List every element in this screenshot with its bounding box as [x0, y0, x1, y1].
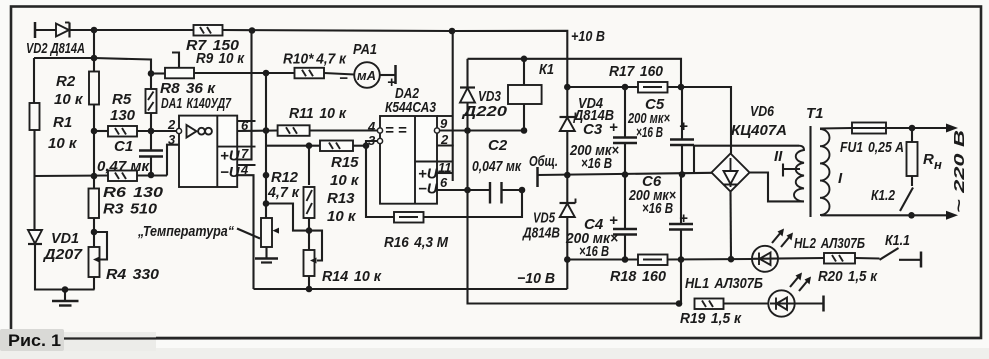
zener diode VD2	[56, 23, 70, 38]
junction node (681,259.5)	[678, 256, 685, 263]
svg-text:10 к: 10 к	[48, 135, 78, 152]
svg-text:R15: R15	[331, 154, 359, 171]
svg-text:Общ.: Общ.	[529, 153, 558, 170]
wire R9 to output node	[194, 72, 295, 74]
svg-text:R5: R5	[112, 91, 132, 108]
Rn load	[911, 128, 913, 142]
zener VD4	[566, 87, 568, 131]
svg-text:R1: R1	[53, 114, 72, 131]
op-amp DA1	[179, 116, 256, 187]
svg-text:R10* 4,7 к: R10* 4,7 к	[283, 51, 347, 68]
potentiometer R9	[165, 68, 194, 79]
svg-text:10 к: 10 к	[327, 208, 357, 225]
svg-text:6: 6	[440, 175, 448, 190]
svg-text:HL2 АЛ307Б: HL2 АЛ307Б	[794, 235, 865, 252]
wire: left vertical column	[33, 58, 35, 103]
junction node (522,190)	[519, 187, 526, 194]
wire: top +10V rail to R7	[94, 29, 194, 31]
junction node (731,259.2)	[728, 256, 735, 263]
svg-text:КЦ407А: КЦ407А	[731, 122, 787, 139]
junction node (467.5,190)	[464, 187, 471, 194]
junction node (266,73)	[263, 70, 270, 77]
junction node (681,87)	[678, 84, 685, 91]
svg-text:R6 130: R6 130	[103, 184, 164, 201]
resistor R4 with wiper loop	[89, 247, 100, 277]
R14 vertical	[304, 250, 315, 276]
junction node (524,130.5)	[521, 127, 528, 134]
svg-text:R14 10 к: R14 10 к	[322, 268, 382, 285]
relay K1 + VD3 flyback	[466, 88, 468, 131]
resistor R7	[194, 25, 223, 36]
node R8 top / R9	[94, 58, 151, 74]
svg-text:VD2 Д814А: VD2 Д814А	[26, 40, 85, 57]
svg-text:+10 В: +10 В	[571, 28, 605, 45]
junction node (568,259.5)	[564, 256, 571, 263]
capacitor C1	[139, 131, 163, 175]
resistor R5	[108, 126, 137, 137]
svg-text:×16 В: ×16 В	[636, 124, 663, 141]
junction node (625,259.5)	[622, 256, 629, 263]
svg-text:II: II	[774, 148, 783, 165]
R17 row	[567, 86, 638, 88]
svg-text:н: н	[934, 157, 942, 172]
output node vertical	[265, 73, 267, 218]
winding II tap terminal	[782, 164, 784, 177]
junction node (679,303.5)	[676, 300, 683, 307]
pin9 output row	[440, 129, 525, 131]
svg-text:мА: мА	[357, 68, 376, 83]
C6 drop to rail B	[680, 260, 682, 304]
winding II	[794, 146, 804, 202]
svg-text:FU1 0,25 А: FU1 0,25 А	[840, 139, 904, 156]
svg-text:+: +	[679, 210, 688, 227]
svg-text:4: 4	[367, 119, 376, 134]
K1.1 switch	[855, 257, 880, 260]
svg-text:2: 2	[167, 117, 176, 132]
junction node (94,232)	[91, 229, 98, 236]
svg-text:Рис. 1: Рис. 1	[8, 331, 61, 350]
junction node (625,87)	[622, 84, 629, 91]
HL2 row	[752, 246, 778, 272]
wire rail slant to +10V corner	[452, 31, 567, 87]
svg-text:10 к: 10 к	[330, 172, 360, 189]
pin6 -U row	[437, 189, 490, 191]
R20	[824, 253, 855, 264]
svg-text:−: −	[339, 70, 348, 87]
meter PA1	[354, 62, 380, 88]
R11 row	[278, 125, 310, 136]
svg-text:R13: R13	[327, 190, 355, 207]
junction node (569,175)	[564, 172, 571, 179]
HL1 row (rail B)	[695, 299, 724, 310]
svg-text:+: +	[609, 119, 618, 136]
capacitor C5	[670, 87, 694, 174]
R16 feedback	[366, 146, 394, 217]
capacitor C6	[669, 174, 693, 259]
R18 row	[567, 258, 638, 260]
junction node (309,230.6)	[306, 227, 313, 234]
svg-text:R9 10 к: R9 10 к	[196, 50, 245, 67]
capacitor C3	[613, 87, 637, 175]
svg-text:−10 В: −10 В	[517, 270, 555, 287]
wire VD1 to ground rail	[35, 244, 95, 290]
svg-text:„Температура“: „Температура“	[137, 223, 234, 240]
svg-text:R11 10 к: R11 10 к	[289, 105, 347, 122]
svg-text:+: +	[679, 118, 688, 135]
junction node (912,128)	[909, 125, 916, 132]
svg-text:9: 9	[440, 116, 448, 131]
resistor R3	[89, 189, 100, 219]
svg-text:+: +	[609, 212, 618, 229]
resistor R6	[108, 171, 137, 182]
svg-text:К1: К1	[539, 61, 554, 78]
svg-text:К1.2: К1.2	[871, 187, 896, 204]
svg-text:R3 510: R3 510	[103, 201, 158, 218]
pin6 output wire	[237, 129, 277, 132]
svg-text:Д207: Д207	[42, 246, 83, 263]
junction node (94,176)	[91, 173, 98, 180]
svg-text:0,047 мк: 0,047 мк	[472, 158, 522, 175]
R13 vertical	[308, 146, 310, 185]
junction node (682,174.4)	[679, 171, 686, 178]
junction node (309,145.7)	[306, 142, 313, 149]
junction node (625,174.6)	[622, 171, 629, 178]
bottom 220V wire	[821, 214, 952, 216]
junction node (309,287.5)	[306, 286, 313, 293]
pin4 -U drop	[237, 175, 253, 289]
svg-text:3: 3	[168, 132, 176, 147]
junction node (524,58.8)	[521, 56, 528, 63]
bridge minus drop	[729, 192, 732, 260]
svg-text:R17 160: R17 160	[609, 63, 664, 80]
AC right	[750, 173, 805, 202]
junction node (266,175.2)	[263, 172, 270, 179]
svg-text:К1.1: К1.1	[885, 232, 910, 249]
svg-text:−U: −U	[418, 181, 439, 198]
pin7 +U riser	[237, 31, 251, 160]
wire: R5 / pin2 row	[94, 130, 108, 132]
svg-text:VD6: VD6	[750, 103, 775, 120]
junction node (65,289.5)	[62, 286, 69, 293]
svg-text:PA1: PA1	[353, 41, 377, 58]
svg-text:~ 220 В: ~ 220 В	[951, 130, 968, 213]
junction node (366,145.7)	[363, 142, 370, 149]
wire: R6 row	[35, 174, 109, 177]
svg-text:R20 1,5 к: R20 1,5 к	[818, 268, 878, 285]
junction node (569,87)	[564, 84, 571, 91]
FU1 fuse	[820, 127, 852, 130]
pin11 stub / +U riser	[437, 172, 453, 174]
junction node (94,131)	[91, 128, 98, 135]
svg-text:R16 4,3 М: R16 4,3 М	[384, 234, 448, 251]
junction node (151,73.5)	[148, 70, 155, 77]
resistor R8 vertical	[146, 89, 157, 113]
resistor R1	[30, 103, 40, 130]
wire to arrow	[886, 127, 952, 129]
svg-text:С3: С3	[583, 121, 603, 138]
wire: R2 column	[93, 30, 95, 72]
x467 vertical to rail B	[468, 131, 680, 304]
wire rail R7 to DA2 riser	[223, 30, 453, 31]
svg-text:Д220: Д220	[461, 103, 508, 120]
wire: pin3 riser of DA1	[167, 145, 179, 176]
AC loop left	[694, 146, 799, 173]
Ris.1 caption	[0, 329, 64, 351]
junction node (467.5,130.5)	[464, 127, 471, 134]
svg-text:HL1 АЛ307Б: HL1 АЛ307Б	[685, 275, 763, 292]
diode VD1	[28, 230, 42, 244]
svg-text:×16 В: ×16 В	[642, 200, 673, 217]
node at VD2/R2 top	[91, 27, 98, 34]
svg-text:3: 3	[368, 133, 376, 148]
R12 ground	[255, 247, 278, 263]
R10/PA1 branch	[295, 68, 325, 79]
pin2 stub	[437, 144, 454, 146]
junction node (452,31)	[449, 28, 456, 35]
svg-text:Д814В: Д814В	[521, 225, 560, 242]
capacitor C4	[613, 175, 637, 260]
junction node (913,213)	[908, 212, 915, 219]
svg-text:−U: −U	[220, 164, 241, 181]
svg-text:= =: = =	[385, 122, 407, 139]
svg-text:R4 330: R4 330	[106, 266, 160, 283]
svg-text:VD1: VD1	[51, 230, 79, 247]
svg-text:R2: R2	[56, 73, 76, 90]
zener VD5	[566, 175, 568, 217]
svg-text:4,7 к: 4,7 к	[267, 184, 300, 201]
-10V rail A	[254, 288, 568, 290]
svg-text:R19 1,5 к: R19 1,5 к	[680, 310, 742, 327]
ground symbol	[52, 290, 79, 306]
svg-text:×16 В: ×16 В	[579, 243, 609, 260]
svg-text:С1: С1	[114, 138, 133, 155]
svg-text:130: 130	[110, 107, 136, 124]
svg-text:10 к: 10 к	[54, 91, 84, 108]
junction node (151,131)	[148, 128, 155, 135]
resistor R2	[89, 72, 99, 105]
svg-text:+U: +U	[220, 148, 241, 165]
R15 row	[266, 145, 320, 147]
terminal bar VD2 input	[34, 22, 37, 38]
junction node (94,58)	[91, 55, 98, 62]
junction node (266,130.5)	[263, 127, 270, 134]
svg-text:DA1 К140УД7: DA1 К140УД7	[161, 95, 231, 112]
svg-text:Т1: Т1	[806, 105, 824, 122]
svg-text:R: R	[923, 151, 934, 168]
svg-text:R18 160: R18 160	[610, 268, 667, 285]
wire: second row left	[34, 57, 94, 59]
svg-text:С2: С2	[488, 137, 508, 154]
junction node (151,175)	[148, 172, 155, 179]
wire: VD2 input row	[35, 29, 69, 31]
svg-text:×16 В: ×16 В	[581, 155, 612, 172]
svg-text:К544СА3: К544СА3	[385, 99, 437, 116]
winding I	[820, 129, 830, 215]
capacitor C2	[490, 182, 522, 204]
junction node (252,30.5)	[249, 27, 256, 34]
junction node (266,203.5)	[263, 200, 270, 207]
